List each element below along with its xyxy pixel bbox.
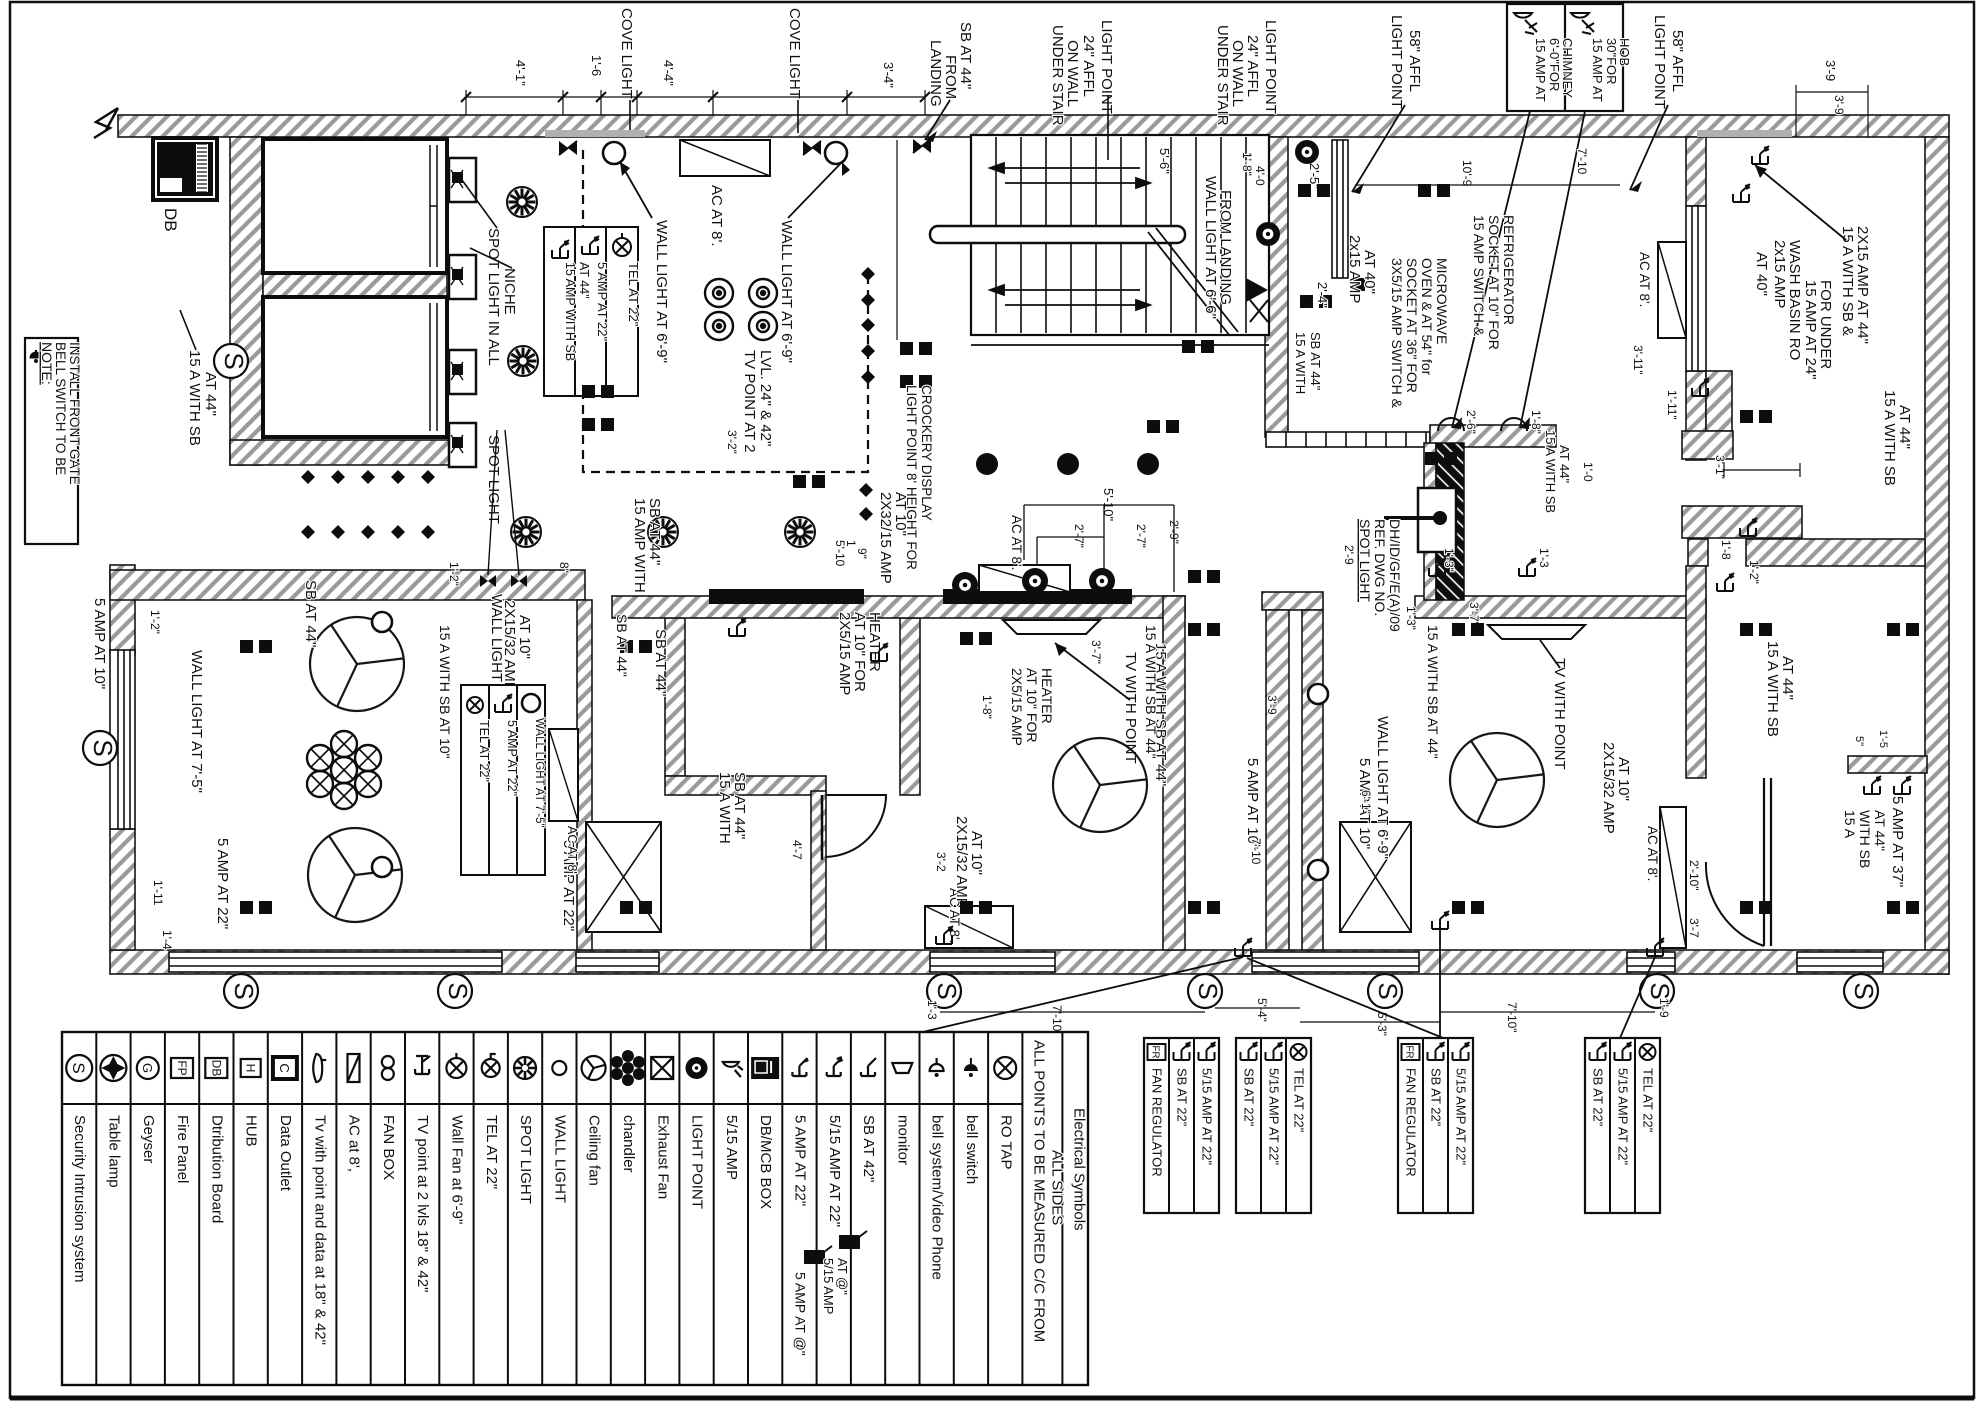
niche box 4 — [449, 423, 476, 467]
cove light leader 2 — [797, 100, 799, 133]
stub switch 2 — [1894, 776, 1911, 794]
mini table B — [1236, 1038, 1311, 1213]
bottom wall window 1 — [169, 952, 502, 972]
landing X symbol — [913, 139, 931, 153]
legend symbol col8 — [313, 1054, 326, 1082]
amp label box foyer — [544, 227, 638, 396]
light point under stair — [1256, 222, 1280, 246]
svg-text:LIGHT POINT: LIGHT POINT — [1651, 15, 1668, 109]
middle-left wall band — [110, 570, 585, 600]
chimney/hob label box — [1507, 4, 1623, 111]
socket pair foyer a — [582, 385, 595, 398]
svg-text:AT 44": AT 44" — [1779, 656, 1796, 700]
living diamond 10 — [421, 525, 435, 539]
bedroom2 left wall — [811, 791, 826, 950]
svg-text:1'-3: 1'-3 — [1537, 548, 1551, 568]
kitchen counter wall band — [612, 596, 1185, 618]
spot leader band — [488, 430, 519, 575]
spot light sunburst closet area 1 — [507, 187, 537, 217]
svg-text:LANDING: LANDING — [927, 40, 944, 107]
svg-text:FROM LANDING: FROM LANDING — [1217, 190, 1234, 305]
svg-text:1'-4: 1'-4 — [160, 930, 174, 950]
living sock d — [620, 901, 633, 914]
stair break line — [1148, 228, 1238, 336]
legend grid lines — [62, 1032, 1062, 1385]
counter gear light 1 — [952, 572, 978, 598]
ac slant box living — [549, 729, 578, 821]
svg-text:AT 40": AT 40" — [1753, 252, 1770, 296]
svg-text:2x15 AMP: 2x15 AMP — [1771, 240, 1788, 308]
svg-text:NICHE: NICHE — [501, 268, 518, 315]
leader table D — [1620, 957, 1655, 1038]
closet 1 (top-left) — [263, 139, 447, 273]
svg-text:AT 10": AT 10" — [516, 615, 533, 659]
svg-text:5/15 AMP AT 22": 5/15 AMP AT 22" — [1616, 1068, 1631, 1166]
svg-text:TV point at 2 lvls 18" & 42": TV point at 2 lvls 18" & 42" — [414, 1115, 431, 1292]
dim line bottom 1 — [940, 1011, 1205, 1013]
svg-text:3'-7: 3'-7 — [1687, 918, 1701, 938]
svg-text:1'-5: 1'-5 — [1877, 730, 1889, 748]
svg-text:15 A WITH SB: 15 A WITH SB — [1764, 641, 1781, 737]
svg-text:1'-9: 1'-9 — [1657, 998, 1671, 1018]
big dot hall 3 — [1137, 453, 1159, 475]
svg-text:SB AT 22": SB AT 22" — [1242, 1068, 1257, 1127]
bedroom2 interior stub — [1848, 756, 1927, 773]
dining sock c — [1740, 623, 1753, 636]
counter gear light 3 — [1089, 568, 1115, 594]
svg-text:4'-1": 4'-1" — [513, 60, 528, 86]
stair bottom edge — [971, 344, 1269, 346]
svg-text:3'-9: 3'-9 — [1265, 695, 1279, 715]
svg-text:DB/MCB BOX: DB/MCB BOX — [757, 1115, 774, 1209]
svg-text:CROCKERY DISPLAY: CROCKERY DISPLAY — [919, 385, 934, 521]
svg-text:15 A WITH SB: 15 A WITH SB — [1881, 390, 1898, 486]
svg-text:3'-2: 3'-2 — [934, 852, 948, 872]
svg-text:AT @": AT @" — [835, 1258, 850, 1295]
stair up arrow lower flight — [990, 285, 1150, 310]
svg-text:SOCKET AT 36" FOR: SOCKET AT 36" FOR — [1404, 258, 1420, 393]
mini table A — [1144, 1038, 1219, 1213]
svg-text:5/15 AMP: 5/15 AMP — [821, 1258, 836, 1314]
diamond column 5 — [861, 370, 875, 384]
kitchen platform wall — [1430, 425, 1556, 447]
svg-text:Security Intrusion system: Security Intrusion system — [71, 1115, 88, 1283]
socket pair stair bottom 2 — [1147, 420, 1160, 433]
living diamond 5 — [421, 470, 435, 484]
svg-text:SB AT 44": SB AT 44" — [1308, 332, 1323, 391]
svg-text:C: C — [277, 1063, 292, 1072]
svg-text:Electrical Symbols: Electrical Symbols — [1070, 1108, 1087, 1231]
wall light corridor 2 — [1308, 860, 1328, 880]
left outer wall upper part — [110, 565, 135, 655]
svg-text:AT 10": AT 10" — [1615, 757, 1632, 801]
wall light circle foyer 2 — [825, 142, 847, 164]
svg-text:FR: FR — [1404, 1045, 1415, 1058]
cove light leader 1 — [629, 100, 631, 133]
bottom border thick line — [10, 1396, 1974, 1401]
distribution board DB — [151, 136, 219, 202]
svg-text:Table lamp: Table lamp — [105, 1115, 122, 1188]
svg-text:DH/ID/GF/E(A)/09: DH/ID/GF/E(A)/09 — [1387, 519, 1403, 632]
wall fan symbol 1 — [705, 279, 733, 307]
chandelier cluster — [307, 731, 381, 809]
dim tick — [920, 92, 930, 102]
switch S bottom 1 — [224, 974, 259, 1008]
svg-text:8": 8" — [557, 562, 571, 573]
mini table D switch symbol — [1615, 1042, 1632, 1060]
big dot hall 2 — [1057, 453, 1079, 475]
diamond column 2 — [861, 293, 875, 307]
dining switch 2 — [1519, 558, 1536, 576]
svg-text:SB AT 44": SB AT 44" — [652, 629, 669, 696]
switch S bottom 4 — [1188, 974, 1223, 1008]
living diamond 6 — [301, 525, 315, 539]
svg-text:15 A WITH SB AT 44": 15 A WITH SB AT 44" — [1143, 625, 1159, 759]
svg-text:2X32/15 AMP: 2X32/15 AMP — [877, 492, 894, 584]
diamond column 4 — [861, 344, 875, 358]
light point stair top — [1295, 140, 1319, 164]
dark shaft wall — [1436, 443, 1464, 600]
wall light leader 2 — [788, 162, 842, 218]
corridor east wall — [1302, 610, 1323, 950]
svg-text:BELL SWITCH TO BE: BELL SWITCH TO BE — [53, 342, 68, 475]
living diamond 4 — [391, 470, 405, 484]
legend symbol col11 — [415, 1056, 430, 1074]
svg-text:FAN REGULATOR: FAN REGULATOR — [1150, 1068, 1165, 1177]
svg-text:S: S — [69, 1062, 88, 1073]
svg-text:bell system/Video Phone: bell system/Video Phone — [929, 1115, 946, 1280]
svg-text:2'-10": 2'-10" — [1687, 860, 1701, 891]
svg-text:FAN BOX: FAN BOX — [380, 1115, 397, 1180]
mini table B switch symbol — [1241, 1042, 1258, 1060]
legend symbol col23 — [827, 1057, 843, 1076]
svg-text:TV WITH POINT: TV WITH POINT — [1551, 658, 1568, 770]
chimney leader — [1452, 111, 1530, 428]
svg-text:ALL POINTS TO BE MEASURED C/C: ALL POINTS TO BE MEASURED C/C FROM — [1030, 1040, 1047, 1342]
svg-text:AT 10" FOR: AT 10" FOR — [1024, 668, 1040, 742]
tv leader hall — [1055, 643, 1130, 700]
svg-text:AT 40": AT 40" — [1361, 250, 1378, 294]
svg-text:SB AT 44": SB AT 44" — [731, 772, 748, 839]
cove light X symbol 1 — [559, 141, 577, 155]
svg-text:AC AT 8'.: AC AT 8'. — [565, 826, 579, 877]
svg-text:2X15 AMP AT 44": 2X15 AMP AT 44" — [1854, 226, 1871, 344]
living sock b — [240, 901, 253, 914]
dining sock f — [1887, 901, 1900, 914]
svg-text:RO TAP: RO TAP — [997, 1115, 1014, 1169]
svg-text:HEATER: HEATER — [1039, 668, 1055, 724]
bed2 sock b — [960, 901, 973, 914]
spot X on band 1 — [480, 575, 496, 587]
mini table C FR symbol — [1402, 1044, 1420, 1060]
svg-text:15 A WITH SB AT 10": 15 A WITH SB AT 10" — [437, 625, 453, 759]
left wall window — [110, 650, 135, 829]
svg-text:S: S — [1849, 982, 1879, 999]
light point leader 4 — [1630, 105, 1668, 190]
stair outline — [971, 135, 1269, 335]
svg-text:5 AMP AT 22": 5 AMP AT 22" — [505, 720, 519, 796]
svg-text:Exhaust Fan: Exhaust Fan — [654, 1115, 671, 1199]
ceiling fan dining — [1450, 733, 1544, 827]
spot light leader — [462, 180, 497, 228]
svg-text:3'-7": 3'-7" — [1089, 640, 1103, 664]
spot light fixture box — [1418, 488, 1456, 552]
svg-text:5 AMP AT 10": 5 AMP AT 10" — [1244, 758, 1261, 849]
svg-text:AC AT 8'.: AC AT 8'. — [1637, 252, 1652, 307]
legend symbol col13 — [482, 1054, 500, 1077]
svg-text:LVL. 24" & 42": LVL. 24" & 42" — [757, 350, 774, 446]
wall light living 2 — [372, 857, 392, 877]
svg-text:TEL AT 22": TEL AT 22" — [1292, 1068, 1307, 1133]
svg-text:AT 44": AT 44" — [1557, 445, 1572, 483]
svg-text:DB: DB — [209, 1060, 223, 1077]
living/bath divider wall — [577, 600, 592, 950]
svg-text:NOTE:: NOTE: — [39, 342, 55, 385]
switch S closet wall — [214, 344, 249, 378]
kitchen platform tick band — [1266, 432, 1430, 447]
dim tick — [558, 92, 568, 102]
svg-text:ON WALL: ON WALL — [1064, 40, 1081, 107]
svg-text:REF. DWG NO.: REF. DWG NO. — [1372, 519, 1388, 616]
legend symbol col6 — [241, 1059, 261, 1077]
bottom wall switch 3 — [1647, 938, 1664, 956]
kitchen right wall — [1424, 443, 1436, 600]
AC unit box hall — [979, 565, 1070, 592]
legend symbol col3 — [137, 1057, 159, 1079]
svg-text:UNDER STAIR: UNDER STAIR — [1049, 25, 1066, 126]
dim line kitchen top — [1355, 184, 1620, 186]
leader legend B — [1247, 958, 1448, 1040]
bathroom right wall — [900, 618, 920, 795]
living diamond 3 — [361, 470, 375, 484]
svg-text:3X5/15 AMP SWITCH &: 3X5/15 AMP SWITCH & — [1389, 258, 1405, 409]
socket pair kitchen b — [1418, 184, 1431, 197]
bedroom2 door — [826, 795, 886, 857]
svg-text:SB AT 44": SB AT 44" — [302, 580, 319, 647]
svg-text:5 AMP AT 22": 5 AMP AT 22" — [791, 1115, 808, 1206]
utility west wall lower — [1686, 371, 1706, 460]
bottom wall window 6 — [1797, 952, 1883, 972]
right bed switch 1 — [1717, 573, 1734, 591]
svg-text:SB AT 22": SB AT 22" — [1591, 1068, 1606, 1127]
svg-text:SB AT 22": SB AT 22" — [1429, 1068, 1444, 1127]
svg-text:AC AT 8'.: AC AT 8'. — [708, 185, 725, 247]
AC unit box utility — [1658, 242, 1686, 338]
legend symbol col28 — [994, 1057, 1016, 1079]
svg-text:monitor: monitor — [894, 1115, 911, 1165]
svg-text:OVEN & AT 54" for: OVEN & AT 54" for — [1419, 258, 1435, 376]
switch symbol in box 2 — [582, 236, 599, 254]
mini table C switch symbol — [1453, 1042, 1470, 1060]
socket pair hall c — [793, 475, 806, 488]
legend symbol col2 — [100, 1055, 126, 1081]
dim tick — [461, 92, 471, 102]
svg-text:1'-2": 1'-2" — [1747, 560, 1761, 584]
wall light corridor 1 — [1308, 684, 1328, 704]
socket pair utility — [1740, 410, 1753, 423]
svg-text:5/15 AMP AT 22": 5/15 AMP AT 22" — [1200, 1068, 1215, 1166]
svg-text:WALL LIGHT AT 6'-6": WALL LIGHT AT 6'-6" — [1202, 176, 1219, 319]
black counter strip 1 — [709, 589, 864, 604]
svg-text:15 A WITH: 15 A WITH — [1293, 332, 1308, 394]
bedroom right door — [1763, 778, 1765, 946]
svg-text:LIGHT POINT: LIGHT POINT — [1262, 20, 1279, 114]
svg-text:TEL AT 22": TEL AT 22" — [483, 1115, 500, 1189]
tv leader dining — [1540, 640, 1560, 668]
svg-text:SB AT 44": SB AT 44" — [957, 22, 974, 89]
svg-text:5'-4": 5'-4" — [1255, 998, 1269, 1022]
switch S left wall — [83, 731, 118, 765]
shaft box with X (left) — [586, 822, 661, 932]
svg-text:5'-6": 5'-6" — [1157, 148, 1172, 174]
stair mid landing rail — [930, 226, 1185, 243]
svg-text:1'-11": 1'-11" — [1665, 390, 1679, 420]
svg-text:FP: FP — [175, 1060, 189, 1075]
utility leader — [0, 0, 1, 1]
svg-text:FOR UNDER: FOR UNDER — [1817, 280, 1834, 369]
stub switch 1 — [1864, 776, 1881, 794]
svg-text:3'-9: 3'-9 — [1832, 95, 1846, 115]
svg-text:15 AMP SWITCH &: 15 AMP SWITCH & — [1471, 215, 1487, 337]
kitchen arc switch 1 — [1438, 418, 1464, 431]
tv trapezoid dining — [1488, 625, 1585, 639]
shaft box with X (right) — [1340, 822, 1411, 932]
legend symbol col9 — [348, 1054, 360, 1082]
socket pair foyer b — [582, 418, 595, 431]
bathroom left wall — [665, 618, 685, 776]
bottom wall window 2 — [576, 952, 659, 972]
cove shade strip 1 — [545, 130, 645, 137]
mini table D switch symbol — [1590, 1042, 1607, 1060]
svg-text:CHIMNEY: CHIMNEY — [1560, 38, 1575, 98]
hall sock a — [1188, 623, 1201, 636]
cove shade strip 2 — [1697, 130, 1792, 137]
svg-text:15 A: 15 A — [1842, 810, 1858, 839]
svg-text:G: G — [140, 1063, 155, 1073]
spot sunburst mid band left — [511, 517, 541, 547]
stair treads — [996, 137, 1246, 333]
dim tick — [632, 92, 642, 102]
socket pair kitchen a — [1298, 184, 1311, 197]
leader table C — [1439, 930, 1441, 1038]
legend symbol col4 — [171, 1058, 193, 1078]
svg-text:2X15/32 AMP: 2X15/32 AMP — [501, 600, 518, 692]
mini table A FR symbol — [1148, 1044, 1166, 1060]
svg-text:2'-6": 2'-6" — [1464, 410, 1478, 434]
svg-text:WASH BASIN RO: WASH BASIN RO — [1786, 240, 1803, 360]
hall/center divider wall — [1163, 596, 1185, 950]
mini table C switch symbol — [1428, 1042, 1445, 1060]
svg-text:2X5/15 AMP: 2X5/15 AMP — [836, 612, 853, 695]
diamond column 7 — [859, 507, 873, 521]
legend col22 sub symbol — [804, 1246, 832, 1264]
svg-text:5 AMP AT 22": 5 AMP AT 22" — [214, 838, 231, 929]
bottom wall window 4 — [1252, 952, 1419, 972]
svg-text:WALL LIGHT: WALL LIGHT — [551, 1115, 568, 1203]
bedroom divider wall (right) part2 — [1746, 539, 1925, 566]
light point leader mid — [1107, 95, 1109, 160]
dim line bottom 2 — [1215, 1007, 1300, 1009]
svg-text:AC at 8',: AC at 8', — [346, 1115, 363, 1172]
legend symbol col16 — [582, 1056, 606, 1080]
svg-text:HEATER: HEATER — [866, 612, 883, 672]
dining sock b — [1452, 901, 1465, 914]
svg-text:AT 44": AT 44" — [1896, 405, 1913, 449]
switch S bottom 3 — [927, 974, 962, 1008]
svg-text:REFRIGERATOR: REFRIGERATOR — [1501, 215, 1517, 325]
legend symbol col15 — [552, 1061, 566, 1075]
svg-text:15 AMP AT 24": 15 AMP AT 24" — [1802, 280, 1819, 380]
svg-text:1'-8: 1'-8 — [1719, 540, 1733, 560]
bath switch 2 — [871, 643, 888, 661]
svg-text:AC AT 8'.: AC AT 8'. — [1645, 826, 1660, 881]
svg-text:2X15/32 AMP: 2X15/32 AMP — [1600, 742, 1617, 834]
svg-text:SPOT LIGHT: SPOT LIGHT — [1357, 519, 1373, 602]
svg-text:S: S — [1193, 982, 1223, 999]
svg-text:UNDER STAIR: UNDER STAIR — [1214, 25, 1231, 126]
AC unit box bedroom2 — [925, 906, 1013, 948]
dim tick — [842, 92, 852, 102]
svg-text:SB AT 42": SB AT 42" — [860, 1115, 877, 1182]
top right switch — [1733, 184, 1750, 202]
legend symbol col21 — [751, 1057, 779, 1079]
stair/kitchen divider wall — [1265, 137, 1288, 437]
svg-text:24" AFFL: 24" AFFL — [1244, 35, 1261, 97]
legend symbol col1 — [66, 1055, 92, 1081]
dining sock e — [1740, 901, 1753, 914]
svg-text:1'-6: 1'-6 — [589, 55, 604, 76]
spot sunburst mid-mid — [785, 517, 815, 547]
living diamond 9 — [391, 525, 405, 539]
AC unit box dining — [1660, 807, 1686, 948]
closet 2 (left) — [263, 297, 447, 437]
svg-text:TEL AT 22": TEL AT 22" — [1641, 1068, 1656, 1133]
svg-text:24" AFFL: 24" AFFL — [1080, 35, 1097, 97]
bedroom divider step wall — [1682, 506, 1802, 538]
svg-text:ALL SIDES: ALL SIDES — [1048, 1150, 1065, 1225]
wall light leader 1 — [620, 162, 652, 218]
svg-text:TEL AT 22": TEL AT 22" — [626, 262, 641, 327]
bottom wall switch 2 — [1432, 911, 1449, 929]
AC unit box foyer — [680, 140, 770, 176]
svg-text:1'-3": 1'-3" — [1442, 548, 1456, 572]
stair up arrow upper flight — [990, 163, 1150, 188]
utility switch leader — [1755, 165, 1846, 240]
wall light circle foyer 1 — [603, 142, 625, 164]
bottom outer wall band — [110, 950, 1949, 974]
dining switch 1 — [1429, 558, 1446, 576]
light point leader 3 — [1352, 105, 1405, 192]
diamond column 3 — [861, 318, 875, 332]
svg-text:15 AMP AT: 15 AMP AT — [1533, 38, 1548, 102]
svg-text:1'-8": 1'-8" — [1240, 152, 1254, 176]
svg-text:Dtribution Board: Dtribution Board — [208, 1115, 225, 1223]
svg-text:2X5/15 AMP: 2X5/15 AMP — [1009, 668, 1025, 746]
utility wall window — [1686, 206, 1706, 371]
svg-text:Geyser: Geyser — [140, 1115, 157, 1163]
closet-left vertical wall — [230, 137, 263, 465]
svg-text:HUB: HUB — [243, 1115, 260, 1147]
tv trapezoid hall — [1003, 620, 1100, 634]
svg-text:6'-1": 6'-1" — [1359, 790, 1373, 814]
svg-text:WALL LIGHT AT 6'-9": WALL LIGHT AT 6'-9" — [1374, 716, 1391, 859]
wall fan symbol 4 — [749, 312, 777, 340]
utility switch mid — [1692, 378, 1709, 396]
svg-text:1'-8": 1'-8" — [1529, 410, 1543, 434]
socket pair kitchen d — [1300, 295, 1313, 308]
svg-text:1'-8": 1'-8" — [980, 695, 994, 719]
svg-text:LIGHT POINT 8' HEIGHT FOR: LIGHT POINT 8' HEIGHT FOR — [904, 385, 919, 570]
